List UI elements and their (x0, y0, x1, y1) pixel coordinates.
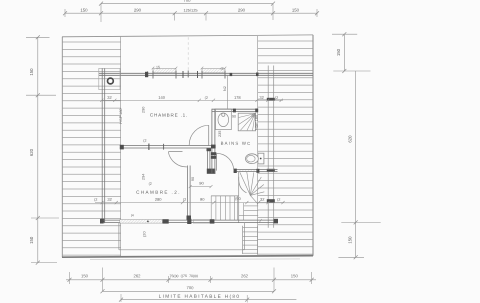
sink lavabo (216, 109, 236, 130)
svg-text:290: 290 (141, 106, 146, 113)
svg-text:150: 150 (292, 8, 300, 13)
svg-text:(20: (20 (142, 231, 147, 237)
svg-text:32: 32 (107, 197, 112, 202)
balcony (119, 223, 244, 250)
plan outer boundary (62, 35, 313, 260)
svg-text:CHAMBRE .1.: CHAMBRE .1. (150, 113, 188, 118)
svg-text:(4: (4 (131, 213, 134, 217)
window W2 in top wall (202, 69, 225, 79)
bains south wall (234, 169, 278, 173)
bottom dimension row 700 (101, 285, 277, 293)
svg-text:75(00: 75(00 (170, 274, 179, 278)
svg-text:262: 262 (241, 273, 249, 278)
chambre1 door (189, 125, 209, 145)
svg-text:(2: (2 (205, 96, 208, 100)
svg-text:150: 150 (348, 236, 353, 244)
svg-text:90: 90 (191, 177, 195, 181)
svg-text:150: 150 (80, 8, 88, 13)
wc toilet (246, 153, 264, 164)
svg-text:178: 178 (234, 95, 241, 100)
bottom wall of rooms (100, 219, 278, 224)
right roof hatch strip (258, 36, 313, 256)
svg-text:280: 280 (155, 197, 162, 202)
top wall junctions (145, 71, 259, 79)
left dimension line 150/620/150 (26, 35, 59, 264)
svg-text:150: 150 (336, 48, 341, 56)
bottom note LIMITE HABITABLE H:180 (119, 294, 296, 303)
svg-text:620: 620 (348, 135, 353, 143)
shower (238, 113, 255, 131)
svg-text:N2: N2 (223, 86, 227, 91)
svg-text:235: 235 (217, 131, 222, 138)
svg-text:290: 290 (134, 8, 142, 13)
top wall of rooms (99, 73, 313, 75)
svg-text:90: 90 (199, 181, 204, 186)
svg-text:90: 90 (232, 114, 236, 118)
svg-text:(2: (2 (275, 96, 278, 100)
svg-text:(2: (2 (149, 182, 152, 186)
staircase straight flight in hall (211, 172, 239, 223)
staircase winder fan (238, 172, 265, 220)
left wall of rooms W1 (101, 68, 148, 223)
svg-text:70(00: 70(00 (189, 274, 198, 278)
svg-text:(2: (2 (183, 198, 186, 202)
svg-text:140: 140 (158, 95, 165, 100)
svg-text:700: 700 (183, 0, 191, 3)
bains north wall (212, 109, 258, 113)
svg-text:125/125: 125/125 (183, 8, 197, 13)
bains west wall (211, 109, 216, 174)
window W1 in top wall (153, 69, 176, 79)
svg-text:620: 620 (29, 148, 34, 156)
svg-text:90: 90 (200, 197, 205, 202)
chambre1 dimension row 32/140/12/178/32/12 (100, 65, 283, 102)
attic divider line right of chambre1 (227, 75, 229, 109)
chambre2 door (168, 152, 187, 167)
svg-text:(2: (2 (277, 198, 280, 202)
top dimension line 150/290/125-125/290/150 (63, 4, 319, 22)
svg-text:LIMITE HABITABLE H(80: LIMITE HABITABLE H(80 (159, 294, 241, 299)
svg-text:150: 150 (81, 273, 89, 278)
right dimension line 150 (332, 32, 371, 73)
right dimension line 620/150 (338, 71, 380, 259)
svg-text:150: 150 (291, 273, 299, 278)
window sill ticks (152, 67, 227, 70)
svg-text:HSP 180: HSP 180 (119, 108, 123, 123)
svg-text:700: 700 (186, 285, 194, 290)
svg-text:CHAMBRE .2.: CHAMBRE .2. (136, 190, 181, 195)
svg-text:HSP 180: HSP 180 (254, 115, 258, 130)
left roof hatch strip (63, 37, 121, 256)
double vertical lines in right strip (267, 66, 275, 228)
svg-text:BAINS WC: BAINS WC (221, 141, 252, 146)
chimney flue box (99, 68, 120, 89)
svg-text:32: 32 (107, 95, 112, 100)
hall door dimension 90 (189, 181, 213, 189)
hall east wall piece (207, 148, 216, 174)
svg-text:294: 294 (141, 173, 146, 180)
svg-text:(90: (90 (235, 196, 241, 201)
svg-text:(2: (2 (220, 67, 223, 71)
hall west wall (187, 166, 192, 221)
svg-text:32: 32 (260, 197, 265, 202)
svg-text:((75: ((75 (181, 274, 187, 278)
svg-text:15: 15 (156, 65, 160, 69)
bottom dimension row 150/262/75-175-70/262/150 (66, 268, 316, 292)
lower stair flight below wall (243, 226, 258, 254)
svg-text:(2: (2 (94, 198, 97, 202)
bains door (217, 153, 234, 170)
svg-text:32: 32 (259, 95, 264, 100)
top overall dimension line (99, 0, 275, 6)
svg-text:290: 290 (238, 8, 246, 13)
svg-text:262: 262 (133, 273, 141, 278)
svg-text:150: 150 (29, 68, 34, 76)
faint ridge axis line (187, 37, 189, 73)
svg-text:150: 150 (29, 236, 34, 244)
chambre2 dimension row 12/32/280/12/90 (94, 196, 284, 204)
mid wall between chambre1 and chambre2 (120, 139, 216, 150)
svg-text:(2: (2 (143, 139, 146, 143)
